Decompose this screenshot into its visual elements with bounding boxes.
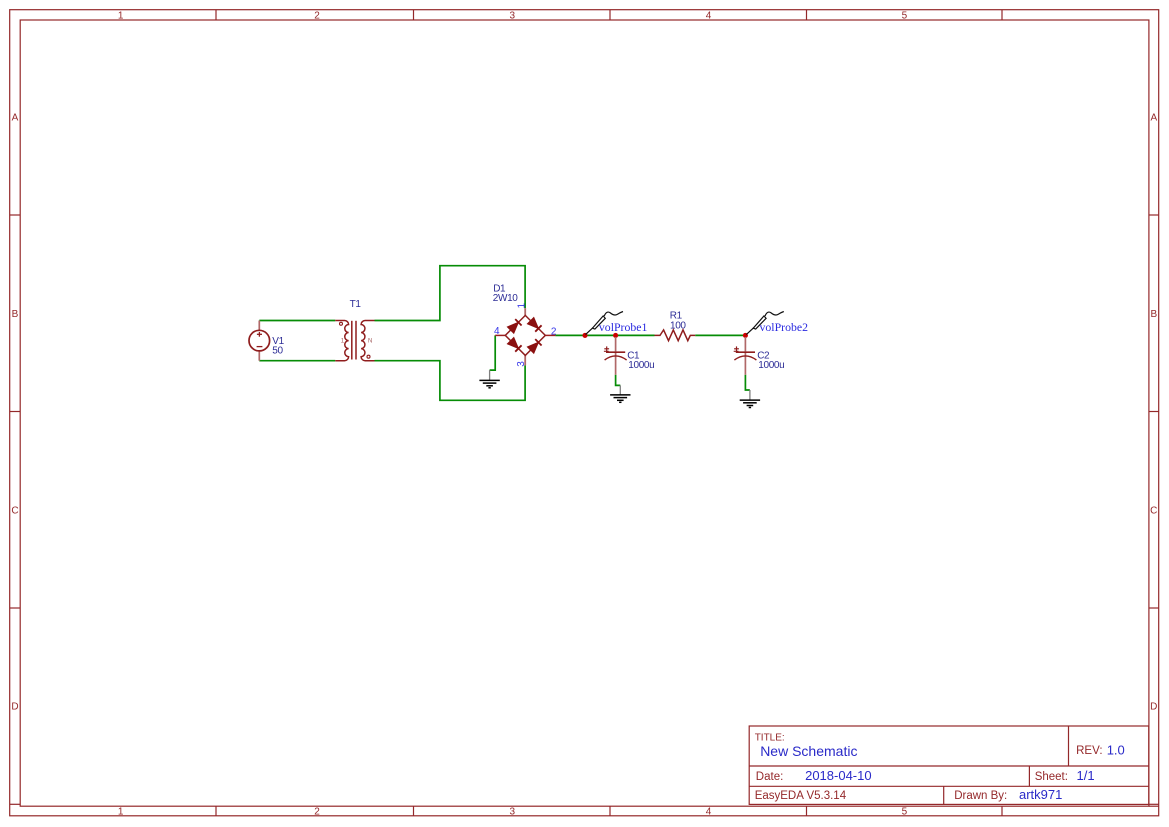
svg-text:A: A — [1150, 113, 1157, 124]
ground (C1) — [610, 385, 630, 402]
wire R1 right to node of C2 — [695, 334, 745, 336]
svg-text:artk971: artk971 — [1019, 787, 1062, 802]
svg-text:4: 4 — [494, 326, 500, 337]
capacitor C1 — [604, 337, 627, 375]
ground (C2) — [740, 390, 760, 408]
svg-text:EasyEDA V5.3.14: EasyEDA V5.3.14 — [755, 790, 847, 802]
bridge rectifier D1 — [495, 308, 555, 365]
node junction dot (C2 top) — [743, 333, 748, 338]
wire T1 secondary top to bridge pin 1 — [375, 266, 526, 321]
wire C2 bottom to ground — [745, 375, 749, 390]
svg-text:A: A — [12, 113, 19, 124]
svg-text:1: 1 — [517, 303, 528, 309]
probe volProbe1 — [586, 312, 624, 335]
capacitor C2 — [734, 337, 757, 375]
svg-text:Drawn By:: Drawn By: — [954, 790, 1007, 802]
svg-text:1: 1 — [118, 806, 124, 817]
svg-text:2W10: 2W10 — [493, 293, 519, 304]
node junction dot (probe1 tap) — [582, 333, 587, 338]
svg-text:100: 100 — [670, 320, 686, 331]
svg-text:Date:: Date: — [756, 771, 784, 783]
svg-text:C: C — [1150, 506, 1157, 517]
svg-text:T1: T1 — [350, 299, 362, 310]
svg-text:2: 2 — [314, 806, 320, 817]
wire T1 secondary bottom to bridge pin 3 — [375, 361, 526, 401]
svg-text:Sheet:: Sheet: — [1035, 771, 1068, 783]
svg-text:4: 4 — [706, 806, 712, 817]
svg-text:N: N — [368, 339, 372, 345]
svg-text:5: 5 — [902, 11, 908, 22]
resistor R1 — [655, 330, 696, 341]
svg-text:5: 5 — [902, 806, 908, 817]
svg-text:3: 3 — [510, 806, 516, 817]
transformer T1 — [335, 321, 374, 361]
svg-text:3: 3 — [510, 11, 516, 22]
svg-text:B: B — [12, 309, 19, 320]
svg-text:D: D — [1150, 702, 1157, 713]
node junction dot (C1 top) — [613, 333, 618, 338]
probe volProbe2 — [746, 312, 784, 335]
svg-text:1/1: 1/1 — [1077, 768, 1095, 783]
svg-text:2: 2 — [314, 11, 320, 22]
svg-text:C: C — [11, 506, 18, 517]
svg-text:50: 50 — [272, 345, 283, 356]
svg-text:TITLE:: TITLE: — [755, 733, 785, 744]
svg-text:1.0: 1.0 — [1107, 743, 1125, 758]
wire V1 top to T1 primary top — [259, 320, 335, 322]
svg-text:B: B — [1150, 309, 1157, 320]
svg-text:4: 4 — [706, 11, 712, 22]
ground (bridge pin 4) — [479, 370, 499, 388]
D1 diode (pin4 to pin3) — [507, 338, 521, 352]
wire V1 bottom to T1 primary bottom — [259, 360, 335, 362]
svg-text:1000u: 1000u — [628, 360, 654, 371]
wire bridge pin 2 to R1 left — [555, 334, 654, 336]
D1 diode (pin4 to pin1) — [507, 319, 521, 333]
svg-text:3: 3 — [516, 361, 527, 367]
wire C1 bottom to ground — [616, 375, 621, 386]
svg-text:volProbe2: volProbe2 — [760, 320, 809, 334]
D1 diode (pin3 to pin2) — [527, 339, 541, 353]
svg-text:2: 2 — [551, 326, 557, 337]
svg-text:New Schematic: New Schematic — [760, 743, 857, 759]
voltage source V1 — [249, 321, 270, 361]
svg-text:2018-04-10: 2018-04-10 — [805, 768, 872, 783]
svg-text:REV:: REV: — [1076, 745, 1102, 757]
svg-text:1: 1 — [118, 11, 124, 22]
wire bridge pin 4 to ground — [490, 335, 496, 370]
svg-text:volProbe1: volProbe1 — [599, 320, 648, 334]
D1 diode (pin1 to pin2) — [527, 318, 541, 332]
svg-text:D: D — [11, 702, 18, 713]
svg-text:1000u: 1000u — [758, 360, 784, 371]
